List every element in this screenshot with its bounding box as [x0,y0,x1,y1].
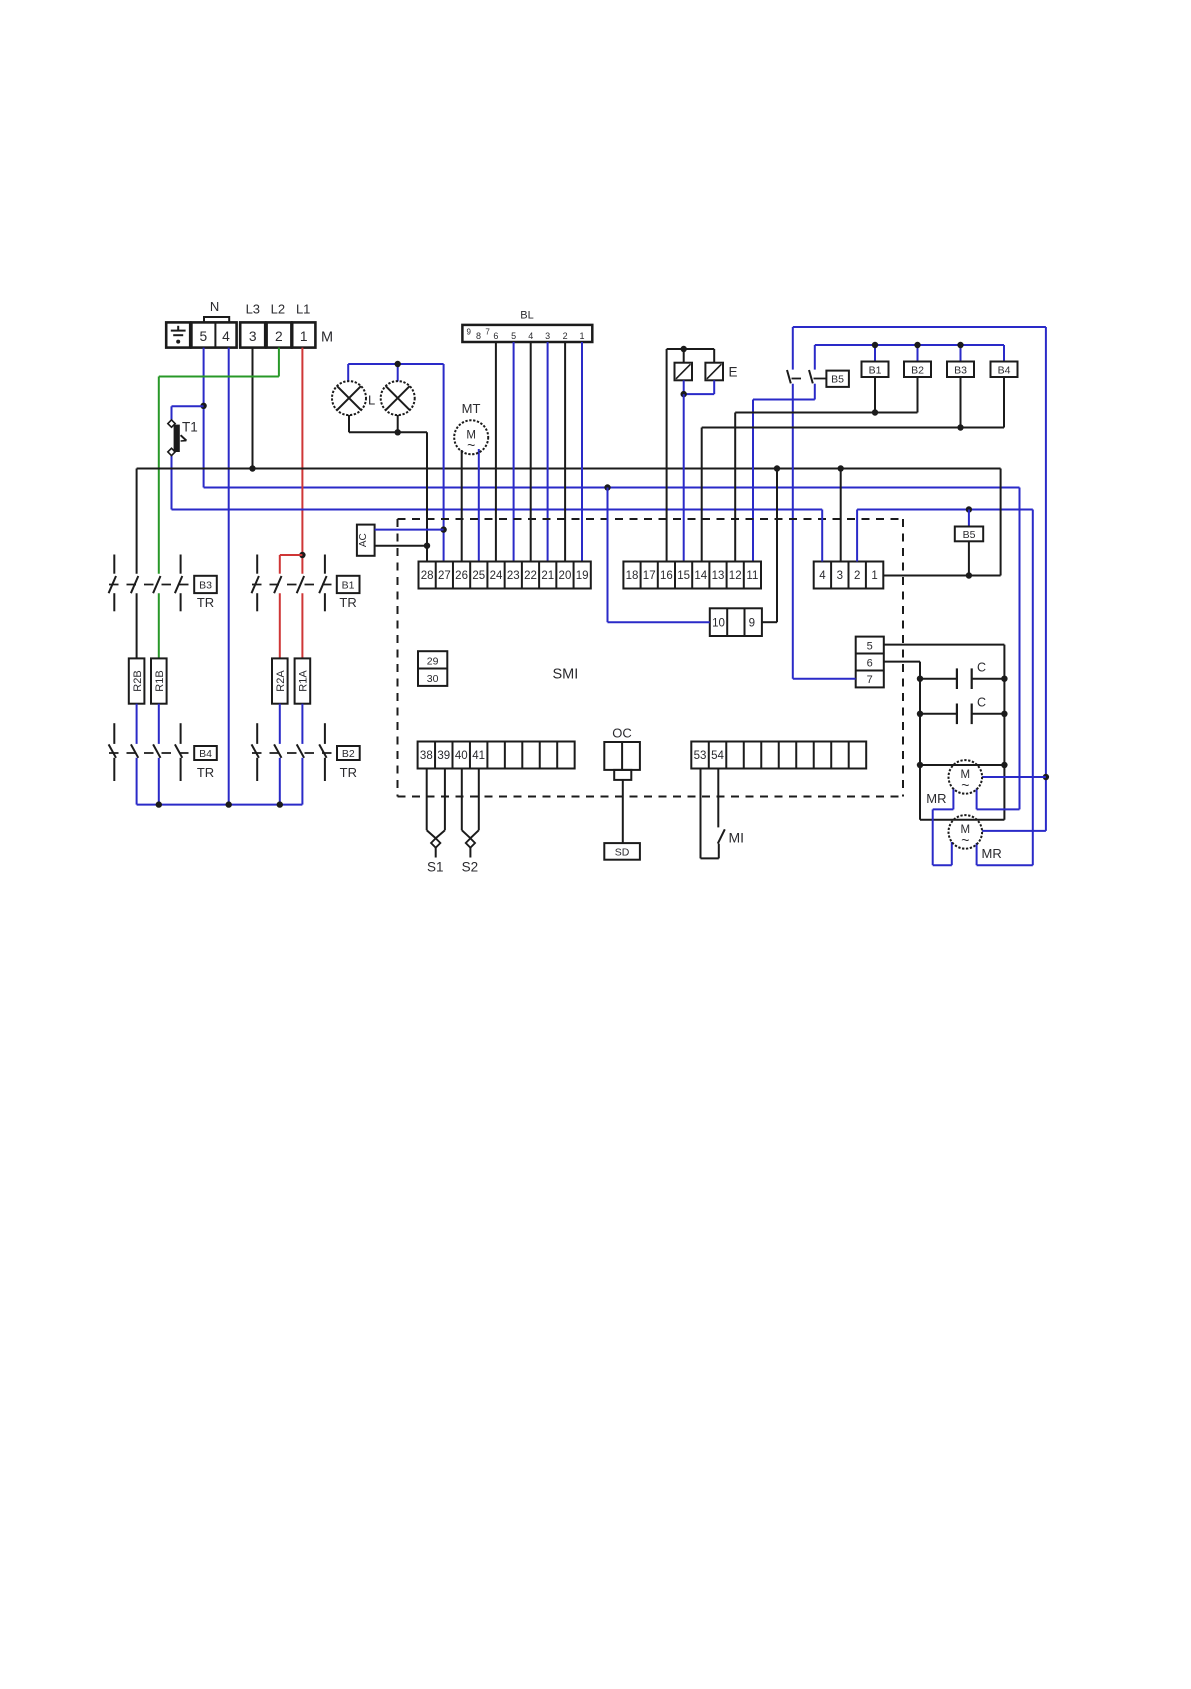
wire SMI 4 from T1 bus [821,510,823,562]
svg-text:3: 3 [249,329,257,344]
svg-text:14: 14 [694,570,707,582]
svg-text:29: 29 [427,656,439,668]
svg-text:5: 5 [511,331,516,341]
svg-text:9: 9 [466,328,471,337]
svg-text:1: 1 [871,570,877,582]
earth symbol in block M [171,326,186,344]
svg-text:TR: TR [340,765,357,780]
svg-text:MI: MI [729,830,745,846]
svg-text:C: C [977,696,986,710]
motor MT (turnspit) [454,420,488,561]
svg-text:22: 22 [524,570,537,582]
heater return bus [137,801,303,807]
wire lamps blue to SMI 27 [440,364,446,562]
module AC [357,525,375,556]
wire E black to SMI 16 [666,349,668,562]
svg-text:54: 54 [711,750,724,762]
svg-text:7: 7 [867,674,873,686]
probe S1 (terminals 38/39) [427,769,445,858]
oven lamps L [332,361,444,436]
SMI strip 4 3 2 1 [814,562,884,589]
svg-text:R2B: R2B [132,670,144,691]
capacitor C (lower) [917,696,1008,725]
svg-text:41: 41 [472,750,485,762]
probe S2 (terminals 40/41) [462,769,479,858]
svg-text:~: ~ [961,832,969,848]
svg-text:4: 4 [222,329,230,344]
svg-text:MT: MT [462,401,481,416]
main black bus (L3) [137,465,1001,471]
blue bus from terminal 5 (y487) to motor MR1 [204,484,1020,809]
svg-text:24: 24 [490,570,503,582]
wires B1/B2 down to SMI 12 [735,377,917,562]
svg-text:B4: B4 [998,364,1011,376]
svg-text:1: 1 [579,331,584,341]
svg-text:3: 3 [545,331,550,341]
heating element R1B [151,658,167,703]
svg-text:2: 2 [563,331,568,341]
svg-text:26: 26 [455,570,468,582]
wire lamps to SMI 28 [424,432,430,561]
wire terminal 2 (L2) green to left and down [159,348,279,574]
svg-text:~: ~ [467,437,475,453]
sensor box B4 [991,362,1018,378]
wire terminal 4 blue down to heater return bus [228,348,230,805]
sensor box B2 [904,362,931,378]
svg-text:53: 53 [694,750,707,762]
svg-text:12: 12 [729,570,742,582]
svg-text:C: C [977,661,986,675]
wire SMI 1 to relay box B5 [883,469,1000,579]
wire SMI 6 to left column [884,662,920,820]
wire SMI 10 from N bus [608,488,710,623]
svg-text:20: 20 [559,570,572,582]
wire red down to R1A [301,593,303,658]
SMI strip 38..41 [418,742,575,769]
svg-text:MR: MR [926,791,946,806]
svg-text:BL: BL [520,310,533,322]
wire SMI 7 from B5 [793,678,856,680]
wires B3/B4 down to SMI 14 [702,377,1004,562]
svg-text:L2: L2 [271,302,285,317]
wire OC to SD [622,780,624,843]
svg-text:8: 8 [476,331,481,341]
wire SMI 2 to MR2 bus [856,510,858,562]
svg-text:B2: B2 [911,364,924,376]
svg-text:2: 2 [275,329,283,344]
svg-text:TR: TR [197,595,214,610]
thermostat T1 [168,406,204,509]
display SD [604,843,640,860]
wire terminal 1 (L1) red down [280,348,306,574]
contact group B3 (TR) [109,555,217,612]
svg-text:2: 2 [854,570,860,582]
wire R2A blue down [279,704,281,805]
svg-text:18: 18 [626,570,639,582]
svg-text:5: 5 [867,640,873,652]
contact group B2 (TR) [252,723,360,781]
svg-text:S2: S2 [462,860,479,875]
svg-text:23: 23 [507,570,520,582]
svg-text:7: 7 [485,328,490,337]
svg-text:10: 10 [712,618,725,630]
svg-text:T1: T1 [182,420,198,435]
selector switch B5 [787,327,849,679]
heating element R2A [272,658,288,703]
wire R1B blue down [158,704,160,805]
svg-text:6: 6 [493,331,498,341]
black loop bottom [920,819,1004,821]
svg-text:MR: MR [982,846,1002,861]
svg-text:TR: TR [197,765,214,780]
wire AC black [375,545,427,547]
SMI strip 28..19 [419,562,591,589]
blue bus feeding B1..B4 [815,342,1004,362]
svg-text:SMI: SMI [553,667,579,683]
control board SMI (dashed outline) [398,519,904,797]
svg-text:E: E [729,365,738,380]
motor MR1 [933,760,1046,865]
wire SMI 5 to right column [884,645,1005,820]
blue line B5 pole1 top to right motors column [793,327,1049,831]
sensor box B1 [862,362,889,378]
svg-text:13: 13 [712,570,725,582]
svg-text:1: 1 [300,329,308,344]
wire N/5 blue down to junction and blue bus [200,348,206,488]
sensor box B3 [947,362,974,378]
svg-text:OC: OC [612,726,632,741]
heating element R1A [295,658,311,703]
SMI strip 18..11 [623,562,761,589]
svg-text:R1A: R1A [298,670,310,692]
svg-text:25: 25 [472,570,485,582]
igniter E (two elements) [667,346,723,398]
heating element R2B [129,658,145,703]
svg-text:R1B: R1B [154,670,166,691]
connector OC [604,742,640,780]
svg-text:28: 28 [421,570,434,582]
svg-text:16: 16 [660,570,673,582]
svg-text:L1: L1 [296,302,310,317]
terminal strip BL [462,325,592,342]
SMI connector 5/6/7 [856,637,884,688]
svg-text:N: N [210,299,219,314]
svg-text:6: 6 [867,657,873,669]
door switch MI [701,769,725,859]
motor MR1 rail [917,762,1008,768]
svg-text:38: 38 [420,750,433,762]
wire SMI 3 from black bus [840,469,842,562]
wire terminal 3 (L3) black down to black bus [249,348,255,472]
wire AC blue [375,529,444,531]
wire R2B blue down [136,704,138,805]
svg-text:L3: L3 [246,302,260,317]
contact group B1 (TR) [252,555,360,612]
BL wires down to SMI 24..19 [496,342,582,562]
svg-text:B4: B4 [199,748,212,760]
svg-text:5: 5 [200,329,208,344]
svg-text:19: 19 [576,570,589,582]
svg-text:SD: SD [615,847,630,859]
relay box B5 (right) [955,510,983,576]
wire SMI 9 to black bus [762,469,777,623]
svg-text:B3: B3 [954,364,967,376]
wire black bus down to R2B [136,469,138,659]
svg-text:39: 39 [437,750,450,762]
svg-text:B3: B3 [199,580,212,592]
svg-text:AC: AC [358,533,369,547]
svg-text:B5: B5 [963,529,976,541]
wire R1A blue down [301,704,303,805]
svg-text:30: 30 [427,673,439,685]
contact group B4 (TR) [109,723,217,781]
svg-text:R2A: R2A [275,670,287,692]
svg-text:9: 9 [749,618,755,630]
svg-text:B5: B5 [831,374,844,386]
svg-text:15: 15 [677,570,690,582]
svg-text:TR: TR [339,595,356,610]
SMI connector 29/30 [418,651,447,686]
svg-text:3: 3 [837,570,843,582]
svg-text:27: 27 [438,570,451,582]
svg-text:40: 40 [455,750,468,762]
wire E blue to SMI 15 [683,394,685,561]
wire green down to R1B [158,593,160,658]
svg-text:B1: B1 [342,580,355,592]
svg-text:M: M [321,329,333,345]
svg-text:11: 11 [746,570,758,582]
N bridge link on terminals 5-4 [204,317,229,322]
blue bus from T1 (y509) to motor MR2 [172,506,1033,865]
wire B5 pole2 down to SMI 11 [753,400,815,562]
wire red down to R2A [279,593,281,658]
svg-text:4: 4 [819,570,826,582]
svg-text:17: 17 [643,570,656,582]
svg-text:~: ~ [961,777,969,793]
svg-text:21: 21 [541,570,554,582]
svg-text:B2: B2 [342,748,355,760]
capacitor C (upper) [917,661,1008,690]
svg-text:L: L [368,393,375,408]
svg-text:S1: S1 [427,860,444,875]
motor MR2 [933,815,1046,865]
svg-text:4: 4 [528,331,533,341]
svg-text:B1: B1 [869,364,882,376]
SMI strip 53/54 [691,742,866,769]
SMI connector 10/9 [710,608,762,636]
terminal block M (mains) [166,322,315,347]
